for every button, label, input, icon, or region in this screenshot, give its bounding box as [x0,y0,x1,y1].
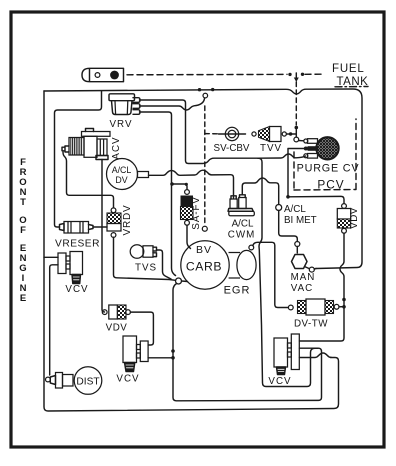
wire: junction down to lower manifold line [173,284,322,401]
svg-text:SA-FV: SA-FV [191,196,202,229]
wire: VRV tab1 down and across to canister vent line [140,100,259,164]
wire: middle VCV second lead to manifold vertical [148,357,171,359]
wire: long loop line down right of carburetor to lower VCV loop [258,158,318,386]
node: junction dot [286,195,290,199]
reservoir VRESER [60,222,94,234]
node: junction dot where air-bleed branch leaves vertical [170,182,174,186]
valve VCV (left) [58,252,83,284]
node: junction dots on manifold vertical [171,349,175,353]
wire: engine boundary left edge and bottom edge joining VCV lead [44,91,339,411]
wire: vent line with hop, rising to purge bottom tab [258,154,306,158]
svg-text:TVV: TVV [260,143,282,154]
valve A/CL DV [107,159,138,190]
wire: TVS to carburetor junction [157,250,172,279]
valve VDV (lower left) [109,305,126,319]
air cleaner A/CL CWM [228,195,254,216]
node: carburetor BV port [202,226,207,231]
wire: dashed hose from capsule toward fuel tank [127,73,287,75]
wire: VRESER left up and over to boundary top edge [55,91,102,227]
pin: VRDV ports [111,208,116,213]
valve VCV (middle bottom) [123,336,148,372]
node: junction dot at DV-TW branch [342,298,346,302]
svg-text:VRDV: VRDV [122,205,133,236]
svg-text:CARB: CARB [186,260,222,274]
wire: BIMET down to manifold vacuum connector [279,211,298,242]
svg-text:DV: DV [115,175,127,185]
svg-text:VAC: VAC [291,283,313,294]
sensor A/CL BIMET port [276,205,282,211]
wire: purge mid tab left and down to VDV feed line [288,149,306,197]
svg-text:VCV: VCV [268,376,291,387]
svg-text:VDV: VDV [349,207,360,229]
wire: lower VCV third lead with hop over return line [300,353,332,358]
svg-text:MAN: MAN [291,272,316,283]
svg-text:BI MET: BI MET [284,215,317,226]
wire: MAN VAC to boundary right edge [314,268,316,271]
wire: left VCV top lead to boundary [44,256,58,258]
wire: CWM right prong to A/CL BIMET and manifold tap [242,178,278,205]
valve ACV assembly [62,129,110,160]
valve SA-FV [181,196,194,220]
valve DV-TW [298,299,334,315]
wire: ACV left nipple down and across to VRDV top [63,152,114,208]
svg-text:CWM: CWM [228,230,255,241]
wire: VRDV bottom across to carburetor junction [114,237,176,280]
svg-text:VDV: VDV [106,323,128,334]
wire: left VCV lower lead down to distributor [50,265,58,375]
node: junction dots on top edge [198,88,201,91]
svg-text:DV-TW: DV-TW [294,319,328,330]
svg-text:A/CL: A/CL [112,165,132,175]
svg-text:VCV: VCV [65,284,88,295]
carburetor CARB [181,241,229,289]
node: hose connector circle above purge valve [294,137,299,142]
switch TVS [130,245,156,259]
pin: TVV ports [252,132,256,136]
svg-text:T: T [20,197,26,208]
svg-text:A/CL: A/CL [284,204,306,215]
valve VRDV [107,213,121,231]
svg-text:VCV: VCV [116,374,139,385]
svg-text:A/CL: A/CL [232,219,254,230]
check valve capsule at top [82,68,124,81]
canister PURGE CV [304,137,339,159]
boundary: PCV dashed enclosure [294,119,356,190]
pin: lower VDV ports [102,310,107,315]
svg-text:VRV: VRV [110,119,133,130]
svg-text:VRESER: VRESER [55,239,100,250]
wire: VDV down with hop over MAN VAC line, to lower VCV lead [300,233,345,341]
wire: purge top tab to connector [299,140,304,142]
wire: branch to SA-FV top port [172,184,187,189]
wire: dashed line from tab2 junction down to carburetor bowl vent [204,106,206,226]
wire: ACV outlet pipe down to lower VDV [102,160,105,313]
svg-text:EGR: EGR [224,285,251,297]
fitting MAN VAC [292,255,308,269]
EGR valve [229,253,241,279]
wire: middle VCV top lead up to lower VDV right port [130,312,153,345]
node: carburetor junction connector [176,278,182,284]
FRONT OF ENGINE label [19,157,26,304]
svg-text:FUEL: FUEL [332,63,365,75]
wire: VRV tab3 long drop to carburetor junction [140,112,176,276]
pin: VRV port tabs [133,98,140,115]
wire: junction to carburetor edge [182,280,188,283]
svg-text:ACV: ACV [111,136,122,159]
pin: MAN VAC outlet [305,267,310,269]
valve VDV (right) [342,204,347,209]
wire: EGR to DV-TW left port [253,242,288,307]
wire: VRV tab2 to connector below top edge (with dip over vertical) [140,98,205,110]
node: hose connector circle below top edge [203,93,208,98]
solenoid SV-CBV [219,127,246,140]
svg-text:BV: BV [196,244,212,256]
valve VCV (lower right) [274,334,299,375]
distributor DIST [46,377,51,382]
wire: A/CL DV to A/CL CWM with hops [149,170,234,198]
svg-text:DIST: DIST [76,377,99,388]
wire: TVV to purge dashed line [286,133,296,135]
svg-text:TVS: TVS [135,263,157,274]
valve VRV body [109,94,135,115]
svg-text:PURGE CV: PURGE CV [297,163,360,175]
pin: SA-FV ports [185,190,190,195]
wire: VDV feed line from junction to VDV top [288,196,344,203]
svg-text:SV-CBV: SV-CBV [214,143,250,154]
svg-text:F: F [20,225,26,236]
wire: dashed branch to SV-CBV [205,133,218,135]
svg-text:E: E [20,293,26,304]
node: manifold connector [295,242,300,247]
pin: DV-TW ports [288,305,293,310]
pin: EGR port [249,245,254,250]
wire: SA-FV bottom to carburetor [187,225,191,248]
wire: engine compartment boundary top edge with dip at fuel-tank dashed line [44,89,362,269]
wire: dashed drop from fuel-tank line through boundary dip to purge valve [295,82,297,125]
wire: VRESER right to VRDV [93,226,107,228]
pin: A/CL DV outlet stub [138,172,149,178]
valve TVV [259,127,282,142]
wire: DV-TW right port to VDV line [339,306,344,308]
